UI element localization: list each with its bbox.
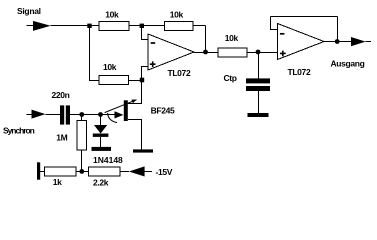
wire node B to feedback resistor: [129, 25, 165, 27]
ground under diode D1: [92, 147, 112, 151]
transistor Q1 BF245 channel bar: [124, 100, 128, 121]
svg-text:-15V: -15V: [156, 167, 173, 177]
svg-text:TL072: TL072: [288, 67, 311, 77]
pin minus U1: [151, 42, 156, 44]
node B junction: [140, 24, 144, 28]
wire Ctp to ground: [258, 91, 260, 113]
wire Signal input stub: [27, 25, 34, 27]
wire node E down to R 1M: [81, 115, 83, 121]
wire Q1 source to ground: [128, 120, 142, 150]
transistor Q1 variable arrow diagonal: [105, 100, 137, 113]
op-amp U2 TL072: [278, 24, 325, 60]
svg-text:2.2k: 2.2k: [93, 177, 109, 187]
capacitor Ctp lower plate: [246, 86, 270, 91]
node E junction: [79, 112, 84, 117]
wire node C down to Q1 drain: [128, 81, 142, 104]
wire U2 feedback down to output node: [337, 17, 339, 42]
capacitor C1 220n left plate: [60, 105, 64, 124]
wire node E down to diode anode: [100, 115, 102, 126]
input arrow Synchron: [32, 110, 46, 119]
ground under Q1 source: [133, 149, 153, 152]
wire diode cathode to ground: [100, 137, 102, 147]
resistor R2 10k feedback: [165, 21, 194, 30]
wire node B down to inverting input: [142, 26, 148, 40]
wire Signal arrow to node A: [51, 25, 100, 27]
svg-text:1M: 1M: [56, 133, 67, 143]
svg-text:10k: 10k: [103, 62, 117, 72]
svg-text:TL072: TL072: [168, 68, 191, 78]
pin plus U2: [280, 51, 286, 57]
svg-text:10k: 10k: [170, 10, 184, 20]
transistor Q1 variable arrow head: [131, 100, 136, 104]
wire U2 feedback top: [271, 16, 338, 18]
wire Synchron input stub: [27, 114, 32, 116]
node output junction: [335, 39, 340, 44]
wire -15V arrow tail: [145, 171, 153, 173]
pin minus U2: [280, 33, 285, 35]
node U1 output junction: [203, 50, 208, 55]
op-amp U1 TL072: [148, 34, 194, 70]
resistor R6 1k: [45, 167, 77, 176]
svg-text:10k: 10k: [105, 9, 119, 19]
svg-text:BF245: BF245: [151, 106, 175, 116]
ground under Ctp: [248, 113, 269, 117]
wire U1 output to series resistor: [194, 52, 218, 54]
wire node A down to lower resistor: [90, 26, 100, 81]
svg-text:220n: 220n: [52, 90, 70, 100]
wire node D down to Ctp: [258, 53, 260, 79]
transistor Q1 gate arrow: [115, 111, 124, 118]
resistor R4 10k series: [218, 48, 247, 57]
transistor Q1 gate arc: [108, 113, 117, 123]
output arrow Ausgang: [351, 37, 366, 46]
wire U2 inverting input stub: [271, 17, 278, 30]
svg-text:Synchron: Synchron: [3, 126, 35, 136]
wire Ausgang arrow tail: [366, 41, 372, 43]
resistor R7 2.2k: [88, 167, 120, 176]
wire feedback resistor to right vertical: [193, 25, 206, 27]
svg-text:Ctp: Ctp: [224, 73, 237, 83]
wire Synchron arrow to C1: [46, 114, 61, 116]
wire ground terminal to R 1k: [40, 171, 44, 173]
wire U2 output to Ausgang arrow: [324, 41, 351, 43]
node F junction: [79, 169, 84, 174]
svg-text:Ausgang: Ausgang: [331, 59, 365, 69]
svg-text:1N4148: 1N4148: [93, 155, 123, 165]
wire C1 to gate node E: [70, 114, 115, 116]
ground terminal left of R 1k: [37, 162, 40, 179]
node C junction: [140, 78, 144, 83]
node D junction: [256, 50, 261, 55]
svg-text:Signal: Signal: [17, 6, 41, 16]
svg-text:10k: 10k: [225, 33, 239, 43]
capacitor C1 220n right plate: [66, 105, 70, 124]
wire node C up to non-inverting input: [142, 67, 148, 81]
wire series resistor to U2 non-inverting input: [247, 52, 278, 54]
wire R 1k to R 2.2k: [76, 171, 88, 173]
node A junction: [87, 24, 91, 28]
diode D1 1N4148 anode triangle: [94, 125, 107, 134]
wire lower resistor to node C: [129, 80, 143, 82]
capacitor Ctp upper plate: [246, 78, 270, 83]
resistor R5 1M: [77, 121, 86, 150]
svg-text:1k: 1k: [53, 177, 62, 187]
resistor R1 10k top input: [99, 21, 129, 30]
wire feedback vertical down to U1 output node: [205, 26, 207, 53]
input arrow Signal: [33, 21, 51, 31]
node gate junction: [98, 112, 103, 117]
diode D1 cathode bar: [93, 134, 109, 137]
wire R 2.2k to -15V arrow: [120, 171, 129, 173]
wire R 1M to bottom node F: [81, 150, 83, 171]
resistor R3 10k lower input: [99, 76, 129, 85]
supply arrow -15V: [129, 166, 145, 176]
pin plus U1: [150, 61, 156, 67]
